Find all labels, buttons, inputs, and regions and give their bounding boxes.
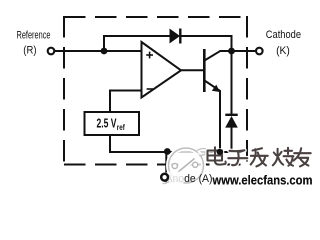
wire to cathode terminal [232,50,256,52]
wire op-amp output to base [181,69,205,71]
wire emitter drop [219,91,221,154]
wire vref to anode rail [109,135,111,153]
wire riser to top rail [103,35,105,52]
wire top rail left of diode [103,35,170,37]
watermark text dianzifashaoyou [208,147,311,166]
svg-text:(R): (R) [23,44,36,56]
svg-text:www.elecfans.com: www.elecfans.com [212,174,313,188]
svg-text:(K): (K) [276,45,290,57]
op-amp U1 [142,42,182,98]
wire collector to node K [220,50,232,52]
wire inverting input [110,90,142,92]
wire top rail right of diode [181,35,233,37]
node K junction [228,48,235,55]
transistor Q1 [204,49,220,92]
svg-text:Reference: Reference [17,30,51,42]
terminal anode [161,174,168,181]
dashed package boundary [64,16,247,166]
wire reference input [55,50,142,52]
reference source 2.5 Vref [85,112,140,135]
terminal cathode [256,48,263,55]
node anode tap junction [164,148,171,155]
svg-text:ref: ref [117,123,125,132]
diode D2 lower [225,50,238,153]
node emitter junction [216,149,223,156]
terminal reference [48,48,55,55]
node emitter junction redraw [217,149,223,155]
svg-text:2.5 V: 2.5 V [97,116,117,130]
wire anode terminal drop [165,152,167,173]
wire anode rail [109,151,233,153]
wire drop to cathode node [231,35,233,51]
svg-text:Cathode: Cathode [266,29,301,41]
node R junction [101,48,108,55]
diode D1 top [170,29,181,44]
watermark logo elecfans [164,148,208,183]
